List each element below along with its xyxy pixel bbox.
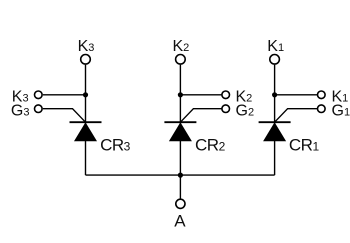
wire: K1 top lead down to anode bus [274,65,276,175]
terminal K1 top circle [270,55,280,65]
node: junction dot K1 [272,92,277,97]
wire: K2 top lead down to anode bus [179,65,181,175]
wire: anode bus [86,174,275,176]
wire: K3 side to junction [43,94,86,96]
wire: anode lead [179,175,181,198]
wire: K1 side to junction [275,94,318,96]
wire: G3 gate lead [43,109,86,123]
terminal G2 circle [222,105,230,113]
node: junction dot K3 [83,92,88,97]
terminal K3 side circle [35,91,43,99]
terminal G1 circle [318,105,326,113]
node: junction dot A [178,173,183,178]
terminal K2 side circle [222,91,230,99]
terminal K1 side circle [318,91,326,99]
svg-text:A: A [174,211,186,230]
terminal K2 top circle [176,55,186,65]
thyristor CR3 cathode bar [70,121,102,123]
wire: K2 side to junction [180,94,221,96]
terminal A circle [176,199,185,208]
terminal K3 top circle [81,55,91,65]
node: junction dot K2 [178,92,183,97]
thyristor CR2 triangle [170,123,192,141]
wire: G1 gate lead [275,109,318,123]
thyristor CR3 triangle [75,123,97,141]
wire: G2 gate lead [180,109,221,123]
thyristor CR1 cathode bar [259,121,291,123]
thyristor CR2 cathode bar [164,121,196,123]
thyristor CR1 triangle [264,123,286,141]
terminal G3 circle [35,105,43,113]
wire: K3 top lead down to anode bus [85,65,87,175]
